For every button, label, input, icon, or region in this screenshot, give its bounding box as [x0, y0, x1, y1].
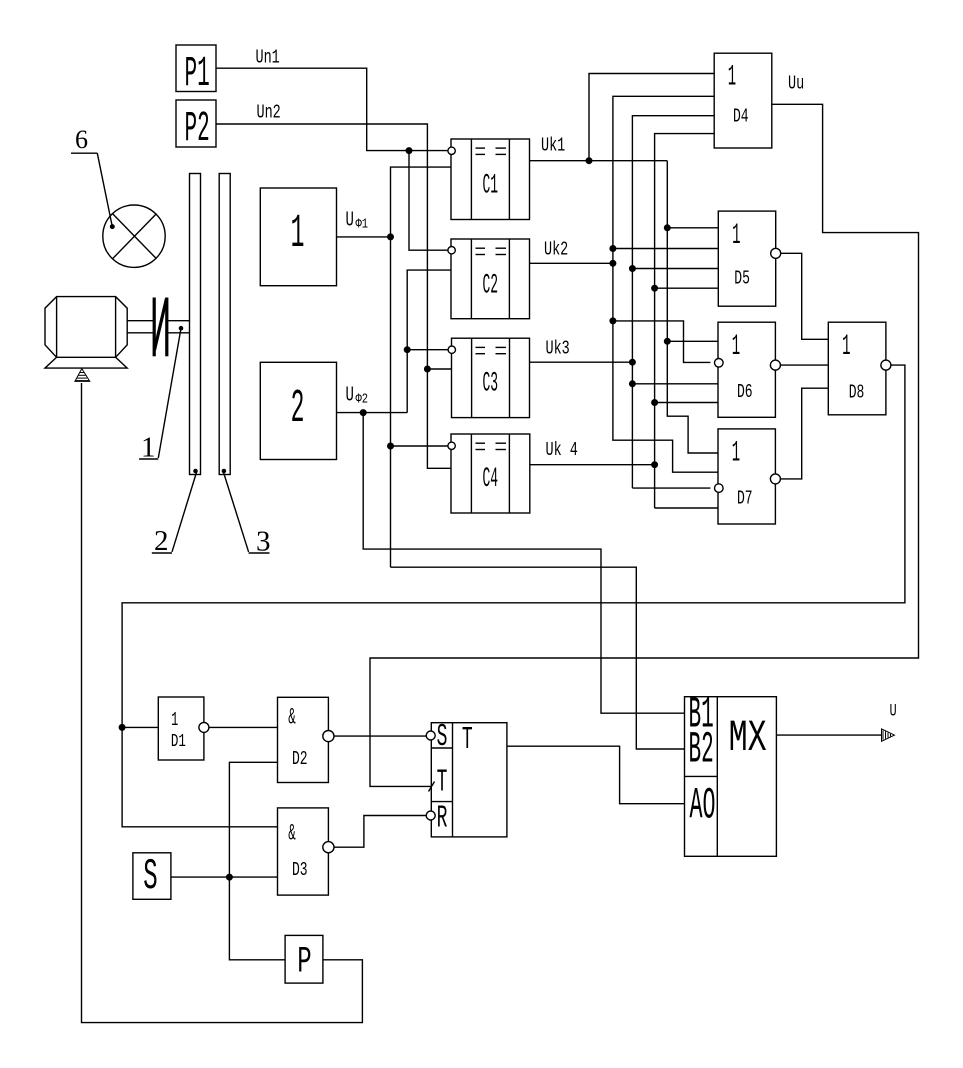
svg-text:Uu: Uu [788, 74, 804, 96]
svg-text:P1: P1 [185, 51, 210, 99]
wire Uk3 to D7 input 3 bubble [632, 487, 710, 489]
wire Uk2 to D5 input 2 [613, 248, 718, 250]
AND gate D3 [278, 808, 329, 895]
AND gate D2 [278, 697, 329, 782]
wire Uk4 riser to D4 input 4 [655, 134, 715, 508]
wire Uphi2 output [337, 412, 408, 414]
svg-text:1: 1 [171, 709, 178, 731]
wire Uphi2 branch to C3 bubble [407, 349, 448, 351]
D7 output bubble [770, 474, 780, 484]
junction Uphi1 [388, 234, 394, 240]
svg-text:D7: D7 [737, 487, 753, 509]
junction Uk1/D4 riser [586, 158, 592, 164]
D2 output bubble [323, 731, 334, 742]
svg-text:P: P [297, 942, 311, 984]
junction Uphi1/C4 branch [388, 443, 394, 449]
wire Uphi2 riser to C2 lower input [407, 270, 451, 413]
sensor P1 [176, 45, 216, 92]
D7 input bubble [715, 484, 724, 493]
junction Un1/C2 branch [406, 148, 412, 154]
wire Uk2 lower riser to D7 input 2 [613, 321, 718, 472]
wire D2 out to T S-input [334, 735, 427, 737]
svg-text:S: S [143, 853, 157, 901]
multiplexer MX [685, 697, 777, 857]
junction Uk1/D5 [665, 225, 671, 231]
T S-input bubble [426, 731, 435, 740]
wire Uphi1 branch to C4 [391, 445, 448, 447]
wire Uu from D4 to T input [370, 104, 919, 786]
svg-text:D4: D4 [733, 105, 749, 127]
junction Uk2 join riser [610, 261, 616, 267]
svg-text:S: S [437, 719, 448, 755]
svg-text:Un2: Un2 [257, 102, 281, 124]
svg-text:D2: D2 [292, 748, 308, 770]
svg-text:Uk 4: Uk 4 [546, 440, 578, 462]
junction Uphi2/C3 branch [404, 347, 410, 353]
wire Uphi1 output [337, 236, 391, 238]
wire D7 out to D8 input 3 [780, 388, 828, 479]
junction D8 net to D1 [119, 725, 125, 731]
svg-text:Uk2: Uk2 [544, 239, 568, 261]
OR gate D6 [718, 322, 775, 417]
wire Uk1 output [530, 160, 668, 162]
wire D1 out to D2 input 1 [209, 726, 278, 728]
svg-text:D1: D1 [171, 731, 186, 752]
lamp 6 [103, 205, 165, 267]
svg-text:U: U [346, 384, 354, 408]
OR gate D5 [718, 211, 775, 306]
svg-text:2: 2 [291, 383, 305, 436]
wire Uk4 to D6 input 4 [655, 402, 718, 404]
reset block P [285, 935, 323, 983]
comparator C2 [451, 239, 530, 319]
junction S net [227, 874, 233, 880]
C1 input bubble [448, 147, 455, 154]
svg-text:P2: P2 [185, 106, 210, 154]
svg-text:Un1: Un1 [256, 47, 280, 69]
wire Uk2 staircase to D6 input 2 bubble [613, 321, 711, 363]
wire S riser to D2 input 2 [229, 762, 277, 877]
svg-text:Uk3: Uk3 [546, 338, 570, 360]
junction Uk4/D6 [652, 400, 658, 406]
coupling (slip clutch) [154, 298, 167, 357]
wire Uk1 to D6 input 1 [667, 340, 718, 342]
set button S [133, 853, 171, 900]
OR gate D4 [714, 53, 772, 148]
D5 output bubble [771, 248, 781, 258]
junction Uk4 join riser [652, 462, 658, 468]
wire Uk3 riser to D4 input 3 [632, 116, 714, 488]
wire T output to MX A0 [507, 746, 685, 804]
svg-text:B2: B2 [689, 726, 714, 776]
wire Uphi1 riser (C1 lower input to B2 run) [391, 167, 452, 567]
T flip-flop [431, 723, 507, 837]
wire Uk1 to D5 input 1 [667, 227, 718, 229]
wire S dropper to P input [229, 877, 285, 960]
shaper block 2 [260, 362, 336, 459]
svg-text:AO: AO [690, 782, 716, 832]
svg-text:D6: D6 [737, 380, 753, 402]
junction Uphi2/B1 drop [360, 410, 366, 416]
C2 input bubble [448, 247, 455, 254]
motor shaft [127, 320, 153, 322]
wire Uk4 output [530, 464, 655, 466]
wire D6 out to D8 input 2 [780, 364, 828, 366]
junction Uk2/D5 [610, 246, 616, 252]
svg-text:C1: C1 [483, 169, 499, 201]
svg-text:2: 2 [154, 525, 169, 557]
OR gate D7 [718, 429, 775, 524]
comparator C3 [452, 338, 530, 417]
wire S to D3 input 2 [171, 876, 278, 878]
comparator C4 [451, 434, 530, 513]
svg-text:D8: D8 [849, 381, 865, 403]
svg-text:1: 1 [842, 330, 850, 363]
junction Uk3/D6 [630, 381, 636, 387]
svg-text:R: R [437, 801, 448, 837]
svg-text:C3: C3 [483, 367, 499, 399]
svg-text:U: U [890, 703, 897, 722]
svg-text:U: U [346, 209, 354, 233]
wire Un1 branch to C2 [409, 151, 448, 251]
shaper block 1 [260, 188, 336, 286]
wire D8 net to D1 input [122, 726, 158, 728]
wire Uk3 output [530, 361, 633, 363]
svg-text:T: T [437, 765, 448, 801]
wire Uk3 to D6 input 3 [632, 383, 718, 385]
svg-text:1: 1 [291, 208, 305, 261]
svg-text:D3: D3 [292, 859, 308, 881]
wire Uk3 to D5 input 3 [632, 268, 718, 270]
C4 input bubble [448, 442, 455, 449]
svg-text:C4: C4 [483, 463, 499, 495]
svg-text:1: 1 [728, 60, 736, 93]
svg-text:Φ1: Φ1 [356, 216, 369, 232]
svg-text:&: & [288, 705, 296, 731]
wire Uk2 riser to D4 input 2 [613, 96, 714, 321]
svg-text:1: 1 [732, 330, 740, 363]
T dynamic input slash [429, 782, 435, 792]
svg-text:T: T [462, 722, 473, 758]
output arrowhead [882, 729, 895, 741]
D6 input bubble [715, 359, 724, 368]
shaft to disk [168, 320, 190, 322]
encoder disk 3 [219, 174, 230, 475]
wire Uk4 to D7 input 4 [655, 507, 718, 509]
T R-input bubble [426, 811, 435, 820]
wire Un1 from P1 to C1 [216, 68, 448, 150]
wire MX output [776, 734, 882, 736]
svg-text:Uk1: Uk1 [541, 135, 565, 157]
motor feedback arrowhead [75, 369, 90, 382]
motor [45, 297, 127, 358]
wire Un2 branch to C3 [427, 368, 451, 370]
wire D5 out to D8 input 1 [781, 253, 829, 339]
svg-text:Φ2: Φ2 [356, 391, 369, 407]
svg-text:&: & [288, 821, 296, 847]
D1 output bubble [199, 722, 209, 732]
svg-text:1: 1 [732, 436, 740, 469]
junction Uk2/D6 staircase [610, 318, 616, 324]
C3 input bubble [448, 346, 455, 353]
svg-text:6: 6 [75, 125, 88, 154]
wire Uk2 output [530, 262, 613, 264]
wire Uphi1 to MX B2 [391, 567, 685, 749]
junction Uk4/D5 [652, 285, 658, 291]
junction Uk3 join riser [630, 359, 636, 365]
wire P out feedback to motor [82, 383, 363, 1023]
wire Uk1 down to D5/D6/D7 [667, 161, 718, 453]
comparator C1 [451, 139, 530, 220]
motor base [45, 357, 127, 368]
wire Uk1 riser to D4 input 1 [589, 74, 714, 161]
wire Uphi2 to MX B1 [363, 413, 684, 714]
svg-text:C2: C2 [483, 269, 499, 301]
wire Un2 from P2 down to C4 [216, 124, 451, 468]
sensor P2 [176, 100, 216, 147]
encoder disk 2 [190, 174, 201, 475]
junction Uk3/D5 [630, 266, 636, 272]
OR gate D8 [828, 322, 886, 415]
wire Uk4 to D5 input 4 [655, 287, 719, 289]
svg-text:MX: MX [729, 714, 767, 764]
inverter D1 [158, 697, 204, 760]
D6 output bubble [770, 360, 780, 370]
D8 output bubble [881, 360, 891, 370]
svg-text:1: 1 [732, 219, 740, 252]
wire D3 out to T R-input [334, 816, 427, 848]
D3 output bubble [323, 842, 334, 853]
svg-text:D5: D5 [734, 267, 750, 289]
junction Uk1/D6 [665, 339, 671, 345]
junction Un2/C3 branch [425, 366, 431, 372]
wire D8 out to D1/D3 [122, 365, 905, 827]
